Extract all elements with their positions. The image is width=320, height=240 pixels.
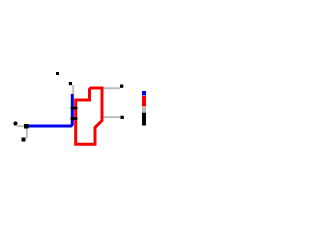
node legend blue entry	[142, 91, 146, 96]
wire gray leader left from square A	[17, 125, 24, 127]
wire blue route	[29, 94, 73, 126]
node legend black entry	[142, 113, 146, 126]
node legend red entry	[142, 96, 146, 107]
node station square S1 (isolated)	[56, 72, 59, 75]
node station square A	[24, 124, 29, 129]
node station square B	[22, 138, 26, 142]
wire gray leader down from square A	[26, 129, 28, 139]
wire gray leader right upper	[104, 87, 121, 89]
node station square S2	[69, 82, 72, 85]
node station square S3	[120, 85, 123, 88]
wire gray leader right lower	[104, 116, 122, 118]
node terminus dot	[13, 121, 17, 125]
wire gray leader to top station square	[72, 85, 74, 94]
node legend gray entry	[142, 107, 146, 112]
node black tick 2 across blue and red	[71, 117, 78, 120]
wire red route loop	[76, 88, 102, 144]
node station square S4	[121, 116, 124, 119]
node black tick 1 across blue and red	[71, 107, 78, 110]
